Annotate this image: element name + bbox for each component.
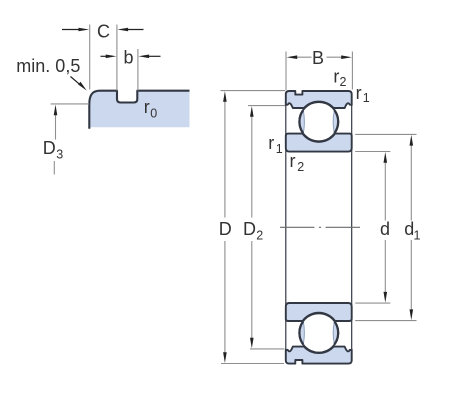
dimension d1 extension lines [355, 134, 416, 320]
bottom half of bearing section (mirrored) [286, 303, 352, 364]
dimension d line and arrows [384, 152, 388, 303]
svg-text:r: r [290, 151, 296, 171]
dimension D extension lines [221, 91, 286, 364]
svg-text:1: 1 [276, 142, 283, 156]
outer ring section (detail) outline [89, 91, 189, 129]
svg-text:1: 1 [414, 228, 421, 242]
dimension d extension lines [355, 152, 390, 304]
svg-text:D: D [219, 219, 232, 239]
dimension D3 arrow line [54, 105, 58, 175]
outer ring section (detail) fill [89, 91, 189, 129]
dimension B line and arrows [287, 55, 352, 59]
svg-text:2: 2 [340, 75, 347, 89]
dimension d1 line and arrows [410, 135, 414, 320]
svg-text:r: r [144, 97, 150, 117]
dimension b arrows and line [101, 55, 161, 59]
svg-text:r: r [268, 133, 274, 153]
dimension C extension lines [90, 25, 117, 91]
svg-text:D: D [43, 138, 56, 158]
svg-text:D: D [243, 219, 256, 239]
svg-text:min. 0,5: min. 0,5 [16, 56, 80, 76]
svg-text:2: 2 [297, 160, 304, 174]
top half of bearing section [286, 91, 352, 152]
svg-text:2: 2 [256, 228, 263, 242]
dimension b extension line [137, 49, 139, 91]
svg-text:1: 1 [363, 91, 370, 105]
dimension B extension lines [286, 52, 352, 91]
svg-text:d: d [380, 219, 390, 239]
right face silhouette line [351, 93, 353, 362]
left face silhouette line [285, 93, 287, 362]
dimension D line and arrows [223, 91, 227, 363]
svg-text:0: 0 [150, 106, 157, 120]
dimension C arrows and line [62, 28, 144, 32]
svg-text:3: 3 [56, 147, 63, 161]
dimension D2 line and arrows [250, 106, 254, 348]
dimension D2 extension lines [248, 106, 285, 349]
svg-text:r: r [356, 83, 362, 103]
centerline [280, 226, 360, 228]
dimension D3 reference line [51, 103, 89, 105]
svg-text:b: b [124, 48, 134, 68]
svg-text:r: r [333, 67, 339, 87]
svg-text:C: C [97, 22, 110, 42]
svg-text:B: B [312, 48, 324, 68]
